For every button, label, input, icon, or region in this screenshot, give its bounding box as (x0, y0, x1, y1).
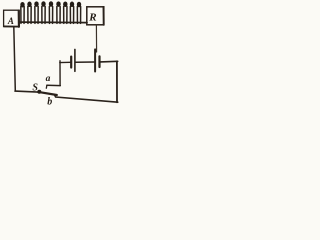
switch S pivot (37, 90, 41, 94)
wire: R down to battery (95, 25, 97, 52)
wire: switch stub (15, 91, 38, 92)
svg-text:R: R (88, 11, 96, 23)
resistor R box (87, 7, 104, 25)
battery cell 1 long plate (74, 49, 76, 71)
battery cell 1 short plate (70, 57, 72, 68)
svg-text:b: b (47, 96, 52, 107)
battery cell 2 long plate (94, 49, 96, 71)
wire: contact a up to battery (59, 61, 61, 86)
switch S arm (41, 92, 57, 95)
wire: between cells (76, 61, 95, 63)
battery cell 2 short plate (98, 56, 100, 67)
inductor L (coil, 9 loops) (20, 1, 81, 23)
wire: left side vertical from A (14, 27, 16, 91)
wire: battery right lead (100, 60, 117, 63)
wire: top baseline from A to R (20, 21, 88, 24)
svg-text:a: a (46, 74, 51, 84)
ammeter A box (4, 10, 20, 27)
wire: battery left lead (60, 61, 70, 63)
node a contact line (46, 85, 60, 88)
wire: right side vertical (116, 61, 118, 102)
wire: bottom from right corner to contact b (55, 95, 118, 102)
svg-text:S: S (32, 83, 38, 94)
svg-text:A: A (7, 16, 14, 26)
